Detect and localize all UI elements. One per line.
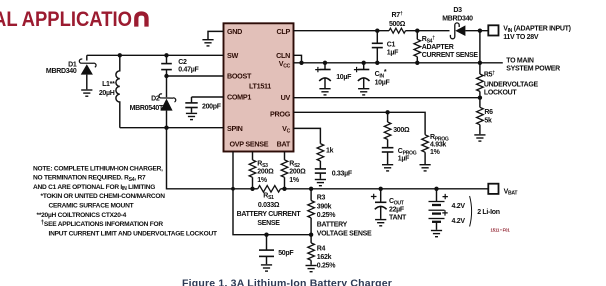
svg-text:R6: R6: [484, 109, 493, 116]
svg-text:BAT: BAT: [277, 140, 291, 149]
resistor RS3 200 ohm: [249, 152, 274, 189]
svg-text:NOTE: COMPLETE LITHIUM-ION CHA: NOTE: COMPLETE LITHIUM-ION CHARGER,: [33, 165, 163, 172]
resistor R5 undervoltage lockout: [477, 71, 539, 98]
ground (0.33uF): [315, 180, 326, 186]
capacitor COUT 22uF TANT: [371, 189, 407, 222]
svg-text:200Ω: 200Ω: [289, 169, 306, 176]
ground (R4): [306, 266, 317, 272]
svg-text:RS2: RS2: [289, 160, 300, 168]
svg-text:C2: C2: [178, 59, 187, 66]
svg-text:390k: 390k: [317, 204, 332, 211]
resistor R7 500 ohm: [389, 11, 406, 33]
svg-text:R4: R4: [317, 245, 326, 252]
svg-text:*TOKIN OR UNITED CHEMI-CON/MAR: *TOKIN OR UNITED CHEMI-CON/MARCON: [41, 193, 166, 200]
ground (COUT): [375, 220, 386, 226]
wire VCC rail: [294, 62, 480, 64]
svg-text:BATTERY: BATTERY: [317, 221, 348, 228]
resistor R3 390k: [308, 189, 372, 238]
svg-text:INPUT CURRENT LIMIT AND UNDERV: INPUT CURRENT LIMIT AND UNDERVOLTAGE LOC…: [49, 230, 217, 237]
svg-text:50pF: 50pF: [278, 250, 294, 257]
resistor R6 5k: [477, 98, 494, 135]
svg-text:SENSE: SENSE: [257, 220, 280, 227]
wire VC net: [294, 128, 321, 143]
svg-text:D2: D2: [151, 96, 160, 103]
svg-text:300Ω: 300Ω: [393, 127, 410, 134]
node RS2 bottom: [282, 187, 286, 191]
svg-text:0.25%: 0.25%: [317, 212, 336, 219]
resistor 300 ohm: [384, 112, 410, 147]
svg-text:200Ω: 200Ω: [257, 169, 274, 176]
svg-text:11V TO 28V: 11V TO 28V: [503, 34, 539, 41]
note text block: [33, 165, 217, 237]
svg-text:AND C1 ARE OPTIONAL FOR IIN LI: AND C1 ARE OPTIONAL FOR IIN LIMITING: [33, 184, 155, 192]
svg-text:RS1: RS1: [263, 193, 274, 201]
node 300 ohm top: [385, 110, 389, 114]
svg-text:R5†: R5†: [484, 71, 495, 79]
ground (10uF): [319, 89, 330, 95]
capacitor 50pF: [259, 235, 294, 265]
node RS3 bottom: [250, 187, 254, 191]
svg-text:C1: C1: [387, 42, 396, 49]
svg-text:TO MAIN: TO MAIN: [506, 58, 534, 65]
ground (CPROG): [382, 165, 393, 171]
wire CLN stub: [294, 55, 302, 63]
node R3/R4 junction: [309, 233, 313, 237]
node CIN top: [362, 61, 366, 65]
svg-text:BATTERY CURRENT: BATTERY CURRENT: [237, 211, 302, 218]
wire SW net: [87, 54, 224, 56]
ground (50pF): [261, 265, 272, 271]
wire SPIN to battery current sense rail: [167, 128, 253, 189]
resistor 1k: [317, 144, 333, 169]
wire VIN down feed: [479, 31, 481, 74]
svg-text:ADAPTER: ADAPTER: [422, 44, 454, 51]
brace 2 Li-Ion: [470, 196, 472, 227]
wire GND pin to ground: [208, 31, 224, 39]
svg-text:PROG: PROG: [270, 110, 291, 119]
wire SPIN net: [120, 127, 224, 129]
wire R7 to D3: [406, 30, 450, 32]
svg-text:†SEE APPLICATIONS INFORMATION: †SEE APPLICATIONS INFORMATION FOR: [41, 219, 164, 228]
svg-text:1511 • F01: 1511 • F01: [491, 228, 511, 233]
wire battery rail right of RS1: [285, 188, 489, 190]
node D2 bottom: [164, 126, 168, 130]
svg-text:VBAT: VBAT: [504, 188, 519, 196]
svg-text:LOCKOUT: LOCKOUT: [484, 89, 518, 96]
op-amp U1 LT1511 IC body: [224, 23, 294, 151]
node RS4 top: [415, 29, 419, 33]
diode D3 MBRD340: [442, 7, 488, 39]
svg-text:MBRD340: MBRD340: [442, 16, 473, 23]
resistor RPROG 4.93k: [422, 134, 449, 164]
capacitor C1 1uF: [372, 31, 399, 63]
svg-text:0.47µF: 0.47µF: [178, 67, 199, 74]
svg-text:4.2V: 4.2V: [452, 203, 466, 210]
ground (GND pin): [202, 40, 213, 46]
svg-text:BOOST: BOOST: [227, 72, 252, 81]
resistor R4 162k: [308, 235, 336, 270]
wire COMP1 net: [192, 96, 224, 98]
capacitor CPROG 1uF: [382, 148, 417, 164]
capacitor C2 0.47uF: [161, 55, 199, 97]
svg-text:MBRD340: MBRD340: [46, 68, 77, 75]
svg-text:LT1511: LT1511: [249, 82, 271, 91]
svg-text:4.93k: 4.93k: [430, 142, 446, 149]
node COUT top: [379, 187, 383, 191]
wire to main system power: [480, 62, 503, 64]
svg-text:Figure 1. 3A Lithium-Ion Batte: Figure 1. 3A Lithium-Ion Battery Charger: [182, 278, 392, 286]
terminal VBAT: [488, 184, 498, 194]
svg-text:22µF: 22µF: [389, 207, 405, 214]
svg-text:UNDERVOLTAGE: UNDERVOLTAGE: [484, 81, 539, 88]
svg-text:NO TERMINATION REQUIRED. RS4,: NO TERMINATION REQUIRED. RS4, R7: [33, 175, 146, 183]
svg-text:VOLTAGE SENSE: VOLTAGE SENSE: [317, 230, 372, 237]
svg-text:SW: SW: [227, 51, 238, 60]
ground (200pF): [186, 113, 197, 119]
svg-text:MBR0540T: MBR0540T: [130, 105, 164, 112]
node UV junction: [478, 96, 482, 100]
svg-text:UV: UV: [281, 93, 291, 102]
inductor L1 20uH: [99, 55, 120, 127]
node 50pF top: [264, 233, 268, 237]
svg-text:GND: GND: [227, 27, 242, 36]
svg-text:162k: 162k: [317, 254, 332, 261]
capacitor CIN 10uF: [354, 63, 391, 88]
node C1 bottom: [375, 61, 379, 65]
node battery top: [434, 187, 438, 191]
node RS4 bottom: [415, 61, 419, 65]
node L1 top: [118, 53, 122, 57]
node C2 top: [164, 53, 168, 57]
svg-text:AL APPLICATIO: AL APPLICATIO: [0, 7, 132, 31]
ground (RPROG): [420, 165, 431, 171]
wire CLP net: [294, 30, 390, 32]
svg-text:TANT: TANT: [389, 214, 407, 221]
svg-text:COMP1: COMP1: [227, 93, 251, 102]
capacitor 0.33uF: [315, 169, 353, 179]
ground (CIN): [358, 89, 369, 95]
svg-text:1k: 1k: [326, 148, 334, 155]
svg-text:CERAMIC SURFACE MOUNT: CERAMIC SURFACE MOUNT: [49, 203, 134, 210]
svg-text:1%: 1%: [430, 149, 441, 156]
svg-text:5k: 5k: [484, 117, 492, 124]
svg-text:1%: 1%: [257, 177, 268, 184]
resistor RS4 adapter current sense: [414, 31, 478, 63]
resistor RS1 0.033 ohm: [237, 186, 302, 228]
svg-text:200pF: 200pF: [202, 104, 222, 111]
svg-text:0.33µF: 0.33µF: [332, 171, 353, 178]
node C1 top: [375, 29, 379, 33]
resistor RS2 200 ohm: [281, 152, 306, 189]
node CLN to VCC: [299, 61, 303, 65]
diode D2 MBR0540T: [130, 94, 176, 128]
ground (D1): [81, 90, 92, 96]
svg-text:R3: R3: [317, 194, 326, 201]
svg-text:10µF: 10µF: [375, 79, 391, 86]
wire PROG net: [294, 112, 426, 135]
svg-text:0.033Ω: 0.033Ω: [258, 202, 280, 209]
svg-text:CIN*: CIN*: [375, 69, 387, 79]
svg-text:10µF: 10µF: [336, 74, 352, 81]
svg-text:COUT: COUT: [389, 198, 405, 206]
ground (R6): [474, 135, 485, 141]
svg-text:SYSTEM POWER: SYSTEM POWER: [506, 65, 560, 72]
terminal VIN: [488, 25, 498, 35]
wire UV net: [294, 97, 480, 99]
ground (battery): [431, 231, 442, 237]
svg-text:L1**: L1**: [102, 81, 115, 88]
node OVP rail crossing: [231, 187, 235, 191]
capacitor 200pF: [185, 97, 221, 113]
svg-text:0.25%: 0.25%: [317, 262, 336, 269]
svg-text:CLP: CLP: [277, 27, 291, 36]
svg-text:20µH: 20µH: [99, 90, 115, 97]
capacitor 10uF bypass: [315, 63, 352, 88]
node BOOST junction: [164, 74, 168, 78]
svg-text:1%: 1%: [289, 177, 300, 184]
svg-text:SPIN: SPIN: [227, 124, 243, 133]
svg-text:CURRENT SENSE: CURRENT SENSE: [422, 52, 479, 59]
node R3 top: [309, 187, 313, 191]
svg-text:500Ω: 500Ω: [389, 21, 406, 28]
svg-text:OVP SENSE: OVP SENSE: [230, 140, 269, 149]
svg-text:D3: D3: [453, 7, 462, 14]
svg-text:VIN (ADAPTER INPUT): VIN (ADAPTER INPUT): [503, 25, 570, 33]
wire BOOST net: [167, 75, 224, 77]
svg-text:R7†: R7†: [392, 11, 403, 19]
node VIN junction: [478, 29, 482, 33]
svg-text:RS3: RS3: [257, 160, 268, 168]
wire OVP pin to divider tap: [233, 152, 311, 235]
node 10uF top: [323, 61, 327, 65]
svg-text:4.2V: 4.2V: [452, 218, 466, 225]
svg-text:1µF: 1µF: [398, 156, 410, 163]
svg-text:**20µH COILTRONICS CTX20-4: **20µH COILTRONICS CTX20-4: [37, 212, 127, 219]
node main power tee: [478, 61, 482, 65]
diode D1 MBRD340: [46, 55, 96, 89]
svg-text:1µF: 1µF: [387, 50, 399, 57]
battery 2 Li-Ion cells: [429, 189, 466, 230]
svg-text:2 Li-Ion: 2 Li-Ion: [477, 209, 500, 216]
